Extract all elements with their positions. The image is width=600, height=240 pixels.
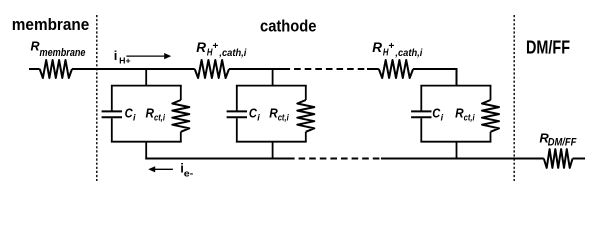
svg-text:C: C bbox=[125, 106, 134, 121]
svg-text:,cath,i: ,cath,i bbox=[394, 48, 422, 59]
wire: cell 3 left edge lower lead from capacitor bbox=[420, 118, 422, 142]
wire: cell 3 left edge upper lead to capacitor bbox=[420, 86, 422, 111]
wire: bottom rail from cell 1 to dashed section bbox=[145, 158, 288, 160]
wire: cell 2 left edge lower lead from capacitor bbox=[236, 118, 238, 142]
label R_ct,i (cell 3) bbox=[455, 106, 475, 123]
svg-text:membrane: membrane bbox=[12, 15, 90, 34]
wire: top rail from last resistor to node 3 with corner down bbox=[413, 69, 456, 86]
wire: cell 1 right edge upper lead to R_ct,i bbox=[180, 86, 182, 100]
wire: node stub from cell 3 down to bottom rail bbox=[456, 142, 458, 159]
resistor R_ct,i (cell 2, vertical zigzag) bbox=[297, 100, 314, 132]
wire: cell 2 bottom edge bbox=[236, 141, 307, 143]
wire: cell 2 right edge upper lead to R_ct,i bbox=[305, 86, 307, 100]
wire: cell 1 left edge lower lead from capacitor bbox=[111, 118, 113, 142]
wire: bottom rail from dashed section across DM/FF boundary to R_DM/FF bbox=[381, 158, 544, 160]
svg-text:membrane: membrane bbox=[40, 47, 86, 59]
wire: cell 2 left edge upper lead to capacitor bbox=[236, 86, 238, 111]
current arrow i_e- bbox=[148, 166, 173, 172]
wire: top rail from first cathode resistor to node 2 bbox=[229, 68, 284, 70]
wire: node stub from cell 2 down to bottom rail bbox=[272, 142, 274, 159]
boundary cathode/DM-FF dotted line bbox=[513, 15, 515, 181]
label R_ct,i (cell 1) bbox=[146, 106, 166, 123]
svg-text:e-: e- bbox=[184, 169, 194, 180]
svg-text:+: + bbox=[389, 41, 395, 52]
resistor R_DM/FF (zigzag) bbox=[544, 149, 573, 168]
svg-text:ct,i: ct,i bbox=[464, 112, 475, 122]
label i_e- bbox=[180, 161, 193, 180]
wire: cell 1 bottom edge bbox=[111, 141, 182, 143]
svg-text:R: R bbox=[31, 40, 40, 54]
label i_H+ bbox=[114, 48, 131, 65]
svg-text:H+: H+ bbox=[119, 55, 131, 65]
label R_H+,cath,i (first) bbox=[196, 40, 246, 59]
svg-text:R: R bbox=[196, 40, 206, 55]
capacitor C_i (cell 3) bbox=[411, 111, 431, 117]
wire: bottom rail right end lead bbox=[573, 158, 585, 160]
resistor R_ct,i (cell 3, vertical zigzag) bbox=[482, 100, 499, 132]
wire: cell 1 left edge upper lead to capacitor bbox=[111, 86, 113, 111]
label C_i (cell 3) bbox=[432, 106, 443, 123]
wire: cell 2 top edge bbox=[236, 85, 307, 87]
svg-text:DM/FF: DM/FF bbox=[526, 38, 570, 58]
wire: cell 3 right edge lower lead from R_ct,i bbox=[490, 132, 492, 142]
wire: cell 3 right edge upper lead to R_ct,i bbox=[490, 86, 492, 100]
wire: cell 3 top edge bbox=[420, 85, 491, 87]
label R_membrane bbox=[31, 40, 86, 59]
wire: cell 1 top edge bbox=[111, 85, 182, 87]
svg-text:R: R bbox=[372, 40, 382, 55]
boundary membrane/cathode dotted line bbox=[96, 15, 98, 181]
svg-text:,cath,i: ,cath,i bbox=[218, 48, 246, 59]
label R_DM/FF bbox=[539, 130, 576, 148]
wire: node stub from cell 1 down to bottom rail bbox=[145, 142, 147, 160]
label C_i (cell 1) bbox=[125, 106, 136, 123]
wire: top rail lead into last cathode resistor bbox=[367, 68, 379, 70]
svg-text:cathode: cathode bbox=[260, 18, 317, 36]
resistor R_H+,cath,i (first, zigzag) bbox=[195, 60, 229, 78]
wire: top rail from R_membrane across membrane boundary to first cathode resistor bbox=[72, 68, 195, 70]
svg-text:C: C bbox=[249, 106, 258, 121]
capacitor C_i (cell 1) bbox=[102, 111, 122, 117]
wire: top rail left lead into R_membrane bbox=[29, 68, 40, 70]
svg-text:+: + bbox=[213, 41, 219, 52]
label R_H+,cath,i (last) bbox=[372, 40, 422, 59]
svg-text:ct,i: ct,i bbox=[154, 112, 165, 122]
wire: cell 3 bottom edge bbox=[420, 141, 491, 143]
capacitor C_i (cell 2) bbox=[227, 111, 247, 117]
resistor R_membrane (zigzag) bbox=[40, 60, 72, 78]
svg-text:ct,i: ct,i bbox=[278, 112, 289, 122]
svg-text:DM/FF: DM/FF bbox=[548, 137, 577, 149]
resistor R_ct,i (cell 1, vertical zigzag) bbox=[172, 100, 189, 132]
wire: node stub from top rail into cell 2 bbox=[272, 69, 274, 86]
wire: cell 1 right edge lower lead from R_ct,i bbox=[180, 132, 182, 142]
resistor R_H+,cath,i (last, zigzag) bbox=[379, 60, 413, 78]
wire: node stub from top rail into cell 1 bbox=[145, 69, 147, 86]
current arrow i_H+ bbox=[126, 53, 171, 59]
wire: bottom rail dashed continuation (repeated cells) bbox=[288, 158, 381, 160]
label C_i (cell 2) bbox=[249, 106, 260, 123]
wire: cell 2 right edge lower lead from R_ct,i bbox=[305, 132, 307, 142]
svg-text:i: i bbox=[114, 48, 118, 63]
label R_ct,i (cell 2) bbox=[269, 106, 289, 123]
wire: top rail dashed continuation (repeated cells) bbox=[284, 68, 368, 70]
svg-text:C: C bbox=[432, 106, 441, 121]
